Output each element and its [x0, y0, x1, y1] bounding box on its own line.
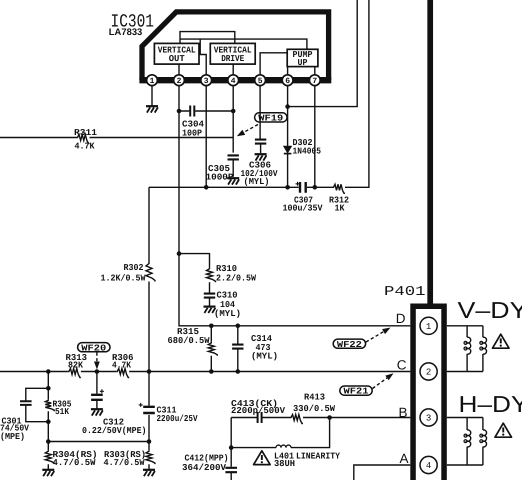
wire IC pin4 column down to C305: [232, 86, 234, 153]
svg-text:LA7833: LA7833: [109, 27, 143, 38]
svg-text:4.7/0.5W: 4.7/0.5W: [104, 458, 146, 468]
svg-text:5: 5: [258, 77, 263, 86]
node C label: [397, 357, 407, 372]
svg-text:1K: 1K: [335, 203, 346, 213]
P401 pin 2 circle: [420, 363, 437, 380]
svg-text:2200p/500V: 2200p/500V: [231, 406, 286, 416]
svg-text:680/0.5W: 680/0.5W: [168, 336, 211, 346]
IC301 part number LA7833: [109, 27, 143, 38]
capacitor C312 0.22/50V(MPE) from row C to ground: [82, 369, 147, 436]
node WF22 label with dashed arrow to row D: [333, 328, 390, 350]
node A label: [399, 451, 408, 466]
IC301 internal box VERTICAL DRIVE: [210, 43, 255, 64]
ground for R304: [42, 470, 54, 476]
ground for C310: [204, 307, 216, 313]
IC301 reference label: [111, 12, 155, 33]
svg-text:1: 1: [426, 322, 431, 332]
wire R311 net from left edge to IC pin4: [0, 137, 233, 139]
resistor R413 330/0.5W: [290, 392, 336, 423]
svg-text:OUT: OUT: [169, 54, 186, 64]
node WF20 label with dashed arrow to row C: [78, 343, 110, 370]
svg-text:4: 4: [231, 77, 236, 86]
ground for R303: [143, 470, 155, 476]
wire riser x=149 row C to R303 with C311: [147, 369, 152, 469]
IC pin 4: [228, 75, 239, 86]
svg-text:WF20: WF20: [81, 343, 106, 353]
wire IC pin2 column down to connector row D: [179, 86, 410, 326]
svg-text:(MYL): (MYL): [251, 351, 278, 361]
capacitor C314 473 (MYL) between rows D and C: [232, 324, 278, 374]
svg-text:1.2K/0.5W: 1.2K/0.5W: [101, 273, 147, 283]
svg-text:2200u/25V: 2200u/25V: [157, 414, 199, 424]
IC301 internal box PUMP UP: [287, 49, 318, 68]
ground for C305: [227, 178, 239, 184]
IC301 internal box VERTICAL OUT: [154, 43, 199, 64]
svg-text:D: D: [396, 311, 406, 326]
IC pin 2: [174, 75, 185, 86]
svg-text:2.2/0.5W: 2.2/0.5W: [216, 273, 257, 283]
node WF21 label with dashed arrow to row C: [340, 373, 394, 396]
resistor R305 51K: [45, 399, 71, 417]
svg-text:364/200V: 364/200V: [182, 463, 227, 473]
capacitor C412(MPP) 364/200V: [182, 454, 237, 480]
svg-text:3: 3: [426, 414, 431, 424]
capacitor C311 2200u/25V (electrolytic): [139, 403, 198, 424]
resistor R315 680/0.5W between rows D and C: [168, 324, 218, 374]
svg-text:LINEARITY: LINEARITY: [296, 451, 341, 461]
svg-text:(MYL): (MYL): [244, 177, 270, 187]
wire IC pin6 column with branch to top edge: [285, 0, 357, 187]
svg-text:3: 3: [204, 77, 209, 86]
wire IC pin3 column down to ground bus: [205, 86, 207, 188]
svg-text:R311: R311: [74, 128, 98, 138]
node WF19 label with dashed arrow to pin4 net: [237, 113, 287, 136]
wire R310 branch from pin2 column: [177, 251, 210, 267]
IC pin 7: [309, 75, 320, 86]
svg-text:2: 2: [426, 368, 431, 378]
svg-text:4.7/0.5W: 4.7/0.5W: [53, 458, 97, 468]
svg-text:WF22: WF22: [337, 340, 362, 350]
capacitor C310 104 (MYL): [204, 290, 241, 319]
ground for C306: [255, 154, 267, 160]
svg-text:WF21: WF21: [344, 387, 370, 397]
svg-text:R413: R413: [304, 392, 325, 402]
IC301 package outline: [139, 12, 331, 80]
P401 connector body: [413, 306, 444, 480]
IC301 internal wires: [152, 32, 315, 107]
wire IC pin7 column down to ground bus: [314, 86, 316, 188]
inductor L401 LINEARITY 38UH parallel branch: [231, 418, 340, 470]
svg-text:6: 6: [285, 77, 290, 86]
wire branch x=48 from row C down to R304: [46, 369, 51, 469]
svg-text:0.22/50V(MPE): 0.22/50V(MPE): [82, 426, 147, 436]
svg-text:(MPE): (MPE): [0, 432, 25, 442]
resistor R302 1.2K/0.5W: [101, 263, 156, 284]
svg-text:C: C: [397, 357, 407, 372]
svg-text:P401: P401: [384, 285, 426, 300]
resistor R304(RS) 4.7/0.5W: [45, 450, 97, 468]
resistor R303(RS) 4.7/0.5W: [104, 450, 156, 468]
svg-text:100u/35V: 100u/35V: [283, 203, 324, 213]
svg-text:(MYL): (MYL): [214, 309, 241, 319]
warning triangle near L401: [254, 451, 271, 465]
V-DY label: [458, 297, 522, 323]
capacitor C304 100P: [182, 106, 205, 139]
H-DY label: [459, 391, 522, 417]
capacitor C305 1000P: [206, 155, 239, 182]
svg-text:330/0.5W: 330/0.5W: [293, 404, 336, 414]
P401 connector label: [384, 285, 426, 300]
svg-text:51K: 51K: [55, 407, 70, 417]
svg-text:B: B: [398, 405, 407, 420]
IC pin 5: [255, 75, 266, 86]
wire row B net with C413 R413 to connector pin3: [231, 415, 410, 420]
resistor R312 1K: [329, 184, 349, 213]
svg-text:R310: R310: [216, 264, 237, 274]
svg-text:A: A: [399, 451, 408, 466]
svg-text:1N4005: 1N4005: [293, 147, 322, 157]
svg-text:R302: R302: [124, 263, 144, 273]
svg-text:4.7K: 4.7K: [75, 141, 96, 151]
wire joining branch x=48 and x=149: [48, 441, 149, 443]
wire C304 branch pin2 to pin4: [177, 109, 236, 114]
resistor R310 2.2/0.5W: [207, 264, 257, 293]
P401 connector feeder wire (thick) from top edge: [427, 0, 433, 304]
IC pin 3: [201, 75, 212, 86]
P401 pin 1 circle: [420, 317, 437, 334]
ground at IC pin1: [146, 106, 158, 112]
svg-text:H–DY: H–DY: [459, 391, 522, 417]
svg-text:WF19: WF19: [258, 114, 283, 124]
node B label: [398, 405, 407, 420]
svg-text:82K: 82K: [68, 360, 84, 370]
svg-text:7: 7: [312, 77, 317, 86]
wire row C bus from left edge to connector pin2: [0, 371, 410, 373]
svg-text:38UH: 38UH: [274, 459, 295, 469]
wire left leg x=231 from row B down to C412: [229, 418, 234, 467]
diode D302 1N4005: [284, 138, 321, 157]
capacitor C306 102/100V (MYL): [241, 140, 279, 188]
wire ground bus (pins 3,6,7 / C307 / R312) with riser to top edge: [149, 0, 369, 190]
P401 pin 4 circle: [420, 456, 437, 473]
svg-text:DRIVE: DRIVE: [221, 54, 245, 64]
svg-text:V–DY: V–DY: [458, 297, 522, 323]
IC pin 6: [282, 75, 293, 86]
resistor R306 4.7K: [112, 353, 134, 378]
svg-text:2: 2: [177, 77, 182, 86]
svg-text:1: 1: [150, 77, 155, 86]
wire row A net from bottom edge to connector pin4: [354, 465, 411, 480]
svg-text:100P: 100P: [182, 128, 203, 138]
node D label: [396, 311, 406, 326]
resistor R311: [74, 128, 98, 151]
svg-text:4.7K: 4.7K: [112, 360, 132, 370]
wire left riser from ground bus down through R302 to row C: [148, 187, 150, 371]
capacitor C413(CK) 2200p/500V: [231, 399, 286, 423]
svg-text:UP: UP: [298, 58, 309, 68]
P401 pin 3 circle: [420, 409, 437, 426]
wire IC pin5 column down to C306: [259, 86, 261, 139]
IC pin 1: [147, 75, 158, 86]
svg-text:4: 4: [426, 461, 431, 471]
ground for C312: [91, 409, 103, 415]
H-DY horizontal deflection yoke coils: [447, 418, 487, 466]
capacitor C307 100u/35V (electrolytic): [283, 182, 324, 214]
warning triangle H-DY: [495, 423, 512, 437]
capacitor C301 74/50V (MPE) parallel branch: [0, 388, 48, 442]
V-DY vertical deflection yoke coils: [447, 326, 487, 372]
resistor R313 82K: [66, 353, 88, 378]
warning triangle V-DY: [493, 334, 510, 348]
